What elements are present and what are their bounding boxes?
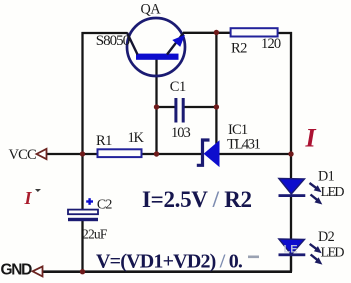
svg-text:LED: LED — [321, 185, 345, 200]
wire: right rail between D1 and D2 — [290, 196, 292, 240]
svg-text:GND: GND — [1, 261, 33, 278]
wire: VCC port to left rail — [46, 153, 98, 155]
svg-text:R2: R2 — [231, 40, 247, 56]
capacitor C1 plate left — [174, 98, 177, 123]
wire: emitter to R2 — [183, 32, 231, 34]
junction dot (C1 left tap) — [154, 104, 159, 109]
capacitor C2 plus sign — [86, 198, 93, 205]
svg-text:VCC: VCC — [9, 147, 37, 163]
LED D2 emission arrow 1 — [310, 244, 322, 253]
svg-text:22uF: 22uF — [82, 227, 108, 242]
junction dot (top wire / ref line) — [214, 30, 219, 35]
watermark gray dash after 0. — [248, 256, 259, 259]
capacitor C1 plate right — [182, 98, 185, 123]
svg-text:I=2.5V / R2: I=2.5V / R2 — [142, 187, 252, 212]
LED D1 emission arrow 2 — [311, 195, 323, 205]
wire: TL431 anode to right rail — [218, 153, 291, 155]
LED D2 emission arrow 2 — [311, 255, 323, 265]
svg-text:S8050: S8050 — [96, 33, 130, 49]
shunt regulator IC1 TL431 cathode bar — [197, 140, 210, 165]
wire: right vertical rail top — [290, 32, 292, 180]
wire: TL431 ref vertical — [215, 33, 217, 145]
transistor QA circle — [127, 18, 185, 76]
svg-text:LE: LE — [284, 244, 298, 256]
resistor R2 — [231, 28, 278, 36]
svg-text:I: I — [24, 188, 33, 208]
svg-text:D1: D1 — [318, 168, 335, 184]
transistor emitter line — [167, 33, 184, 55]
junction dot (C2 bottom / GND wire) — [80, 269, 85, 274]
svg-text:LED: LED — [321, 245, 345, 260]
LED D1 emission arrow 1 — [310, 183, 322, 192]
junction dot (R1 right / base) — [154, 151, 159, 156]
wire: bottom GND horizontal — [43, 270, 293, 273]
junction dot (TL431 anode / right rail) — [288, 151, 293, 156]
transistor emitter arrowhead — [172, 35, 185, 47]
LED D1 bar — [279, 194, 306, 197]
wire: left vertical rail — [81, 32, 83, 154]
svg-text:C2: C2 — [97, 197, 113, 212]
transistor base bar — [136, 54, 179, 60]
wire: R1 right to TL431 node — [141, 153, 201, 155]
svg-text:103: 103 — [171, 125, 191, 141]
capacitor C2 top plate — [68, 210, 98, 215]
wire: C1 left lead — [157, 106, 176, 108]
svg-text:TL431: TL431 — [227, 137, 261, 153]
svg-text:D2: D2 — [318, 229, 335, 245]
svg-text:I: I — [305, 124, 317, 153]
capacitor C2 bottom plate — [68, 218, 98, 221]
shunt regulator IC1 TL431 anode triangle — [204, 141, 219, 166]
wire: transistor base vertical — [155, 59, 157, 155]
svg-text:V=(VD1+VD2) / 0.: V=(VD1+VD2) / 0. — [96, 251, 243, 273]
svg-text:QA: QA — [141, 1, 162, 17]
watermark tick near J — [35, 189, 41, 192]
wire: right rail below D2 — [290, 255, 292, 272]
wire: C2 bottom lead — [81, 220, 83, 272]
transistor collector line — [127, 33, 138, 55]
svg-text:R1: R1 — [96, 133, 112, 149]
resistor R1 — [98, 149, 142, 157]
port VCC arrow — [37, 149, 47, 159]
LED D2 bar — [279, 253, 306, 256]
junction dot (C1 right tap) — [214, 104, 219, 109]
svg-text:C1: C1 — [170, 79, 186, 95]
wire: C1 right lead — [184, 106, 216, 108]
LED D2 triangle — [279, 239, 305, 255]
wire: top-left horizontal (collector to left rail) — [82, 32, 128, 34]
LED D1 triangle — [279, 179, 305, 195]
svg-text:120: 120 — [261, 36, 281, 52]
wire: R2 right to top-right corner — [277, 32, 292, 34]
junction dot (left rail / VCC / R1 / C2) — [80, 151, 85, 156]
svg-text:1K: 1K — [128, 130, 145, 146]
port GND arrow — [33, 266, 43, 276]
wire: C2 top lead — [81, 154, 83, 210]
